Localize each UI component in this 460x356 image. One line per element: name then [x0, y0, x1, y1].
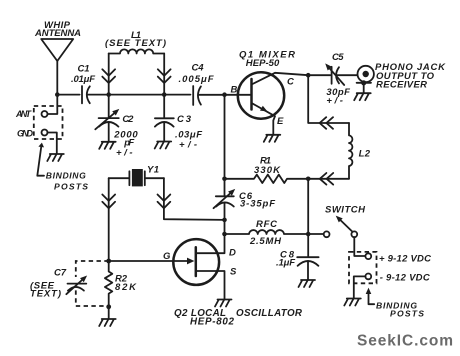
svg-text:2.5MH: 2.5MH	[249, 236, 282, 247]
svg-text:POSTS: POSTS	[54, 181, 88, 191]
SECTION: L1 tank	[102, 30, 170, 95]
ground GND post	[47, 154, 64, 161]
capacitor C3 .03uF	[155, 95, 202, 151]
wire collector to C5	[308, 74, 330, 76]
chevrons L1 right	[158, 69, 171, 83]
wire L2 bottom to R1 node	[308, 178, 349, 180]
wire switch to plus post	[354, 237, 365, 256]
node R2 bottom junction	[106, 304, 111, 309]
node C6 bus top junction	[222, 92, 227, 97]
ground R2	[99, 319, 116, 326]
node Q1 collector junction	[306, 73, 311, 78]
wire L1 left leg	[108, 54, 110, 95]
capacitor C6 3-35pF variable	[214, 179, 276, 220]
svg-text:S: S	[230, 266, 237, 277]
chevrons Y1 left	[102, 195, 115, 209]
svg-text:BINDING: BINDING	[46, 170, 86, 180]
node R1 left junction	[222, 177, 227, 182]
ground Q2 source	[215, 300, 232, 307]
wire top bus B	[87, 94, 164, 96]
ground minus post	[344, 299, 361, 306]
chevrons L2 bottom coupling	[320, 173, 333, 185]
svg-text:POSTS: POSTS	[390, 309, 424, 319]
wire GND post to ground	[48, 133, 57, 154]
svg-text:HEP-50: HEP-50	[246, 58, 280, 69]
svg-text:SeekIC.com: SeekIC.com	[357, 333, 453, 350]
chevrons L1 left	[102, 69, 115, 83]
node R1 right junction	[306, 177, 311, 182]
ground Q1 emitter	[264, 135, 281, 142]
svg-text:RFC: RFC	[256, 219, 277, 230]
ground phono jack	[354, 93, 371, 100]
wire antenna stem	[56, 61, 58, 95]
svg-text:82K: 82K	[115, 282, 137, 293]
inductor L2	[349, 123, 371, 179]
svg-text:HEP-802: HEP-802	[190, 316, 235, 327]
node C3 junction	[162, 92, 167, 97]
svg-text:OSCILLATOR: OSCILLATOR	[236, 308, 303, 319]
chevrons Y1 right	[158, 195, 171, 209]
svg-text:ANT: ANT	[15, 109, 33, 119]
wire RFC node to switch	[308, 233, 323, 235]
terminal GND post	[17, 129, 48, 139]
wire collector node down to L2 top	[308, 75, 349, 123]
wire bus x225 upper	[224, 95, 226, 179]
svg-text:TEXT): TEXT)	[30, 288, 61, 299]
svg-text:3-35pF: 3-35pF	[240, 199, 275, 210]
svg-text:.01μF: .01μF	[71, 74, 95, 85]
binding posts callout arrow	[37, 143, 88, 192]
capacitor C1 .01uF	[71, 64, 95, 104]
terminal +9-12 VDC post	[365, 253, 431, 264]
node antenna junction	[55, 92, 60, 97]
ground C3	[155, 142, 172, 149]
svg-text:+/-: +/-	[116, 148, 133, 159]
wire ANT post to bus	[48, 95, 58, 114]
terminal ANT post	[15, 109, 48, 119]
svg-text:+/-: +/-	[179, 140, 197, 151]
svg-text:.1μF: .1μF	[276, 258, 295, 269]
svg-text:L2: L2	[359, 149, 371, 160]
svg-text:+/-: +/-	[326, 96, 343, 107]
resistor R1 330K	[225, 156, 309, 183]
terminal -9-12 VDC post	[365, 273, 429, 284]
wire top bus D to Q1 base	[198, 94, 251, 96]
binding posts supply (dashed box)	[349, 252, 377, 283]
transistor Q2 HEP-802 local oscillator (FET)	[173, 239, 303, 327]
svg-text:B: B	[231, 85, 238, 96]
svg-text:G: G	[163, 251, 171, 262]
phono jack J1	[357, 62, 447, 93]
wire gate	[109, 260, 174, 262]
svg-text:ANTENNA: ANTENNA	[34, 28, 81, 39]
svg-text:+ 9-12 VDC: + 9-12 VDC	[379, 254, 431, 265]
wire Y1 left leg down to gate node	[108, 178, 110, 261]
wire C7 dashed branch	[76, 261, 109, 306]
svg-text:C2: C2	[122, 114, 134, 125]
svg-text:330K: 330K	[254, 165, 281, 176]
binding posts callout arrow right	[366, 288, 425, 319]
wire top bus C	[164, 94, 190, 96]
svg-text:C1: C1	[78, 64, 90, 75]
svg-text:C3: C3	[177, 114, 192, 125]
svg-text:C4: C4	[192, 62, 205, 73]
node L1 left junction	[106, 92, 111, 97]
svg-text:C5: C5	[332, 52, 344, 63]
svg-text:D: D	[229, 248, 236, 259]
svg-text:RECEIVER: RECEIVER	[376, 79, 427, 90]
svg-text:SWITCH: SWITCH	[325, 205, 366, 216]
binding posts ANT GND (dashed box)	[34, 106, 63, 139]
capacitor C5 30pF variable	[325, 52, 350, 106]
svg-text:E: E	[277, 116, 284, 127]
node drain RFC junction	[222, 232, 227, 237]
wire C5 to phono jack	[336, 74, 357, 76]
capacitor C8 .1uF	[276, 234, 319, 280]
inductor L1 (SEE TEXT)	[105, 30, 166, 54]
ground C2	[99, 142, 116, 149]
wire top bus A	[57, 94, 79, 96]
svg-text:(SEE TEXT): (SEE TEXT)	[105, 38, 166, 49]
chevrons L2 top coupling	[320, 117, 333, 129]
whip antenna	[34, 20, 81, 61]
wire source to ground	[196, 271, 225, 299]
capacitor C7 variable (SEE TEXT)	[30, 267, 87, 299]
wire bus x307 mid	[307, 179, 309, 234]
wire minus post to ground	[354, 276, 366, 298]
svg-text:GND: GND	[17, 129, 34, 139]
svg-text:- 9-12 VDC: - 9-12 VDC	[380, 273, 430, 284]
wire L1 right leg	[163, 54, 165, 95]
wire R2 node to ground	[108, 307, 110, 319]
transistor Q1 HEP-50 mixer	[238, 50, 308, 135]
wire bus Y1 node to RFC node	[224, 220, 226, 234]
node gate junction	[106, 259, 111, 264]
switch S1	[324, 205, 366, 238]
capacitor C2 2000pF variable	[95, 95, 138, 159]
svg-text:Y1: Y1	[147, 165, 159, 176]
SECTION: oscillator	[30, 165, 319, 328]
ground C8	[299, 280, 316, 287]
svg-text:.005μF: .005μF	[179, 74, 214, 85]
SECTION: antenna input	[15, 20, 251, 191]
svg-text:C: C	[287, 77, 294, 88]
capacitor C4 .005uF	[179, 62, 214, 105]
resistor R2 82K	[105, 261, 137, 307]
node Y1 bus junction	[222, 218, 227, 223]
wire drain to node	[196, 234, 225, 253]
inductor RFC 2.5MH	[225, 219, 309, 247]
svg-text:C7: C7	[54, 267, 67, 278]
SECTION: mixer Q1 and output	[222, 50, 446, 235]
wire Y1 right leg to bus	[164, 178, 225, 220]
crystal Y1	[109, 165, 164, 187]
SECTION: power	[308, 205, 453, 350]
node RFC right junction	[306, 232, 311, 237]
